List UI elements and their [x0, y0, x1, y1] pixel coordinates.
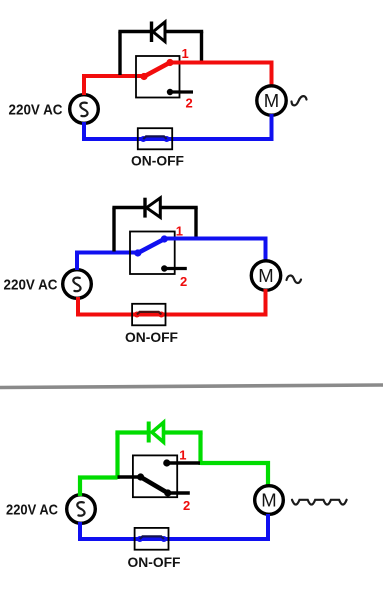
switch S2 throw 1 dot: [161, 235, 168, 242]
wire blue: motor bottom to ON-OFF to source bottom: [84, 114, 272, 139]
switch S1 lever (position 1, red): [144, 63, 170, 77]
switch S1 box: [136, 56, 180, 98]
ON-OFF switch closed blade (circuit 2): [137, 312, 162, 315]
AC source V1 circle: [70, 95, 99, 124]
wire green: source top to diode-loop junction: [80, 478, 118, 497]
svg-text:2: 2: [186, 96, 193, 111]
ON-OFF switch contact dots (circuit 2): [134, 312, 140, 318]
svg-text:M: M: [261, 490, 276, 511]
switch S2 lever (position 1, blue): [138, 239, 165, 253]
svg-text:220V AC: 220V AC: [4, 277, 58, 294]
svg-text:ON-OFF: ON-OFF: [131, 153, 184, 169]
AC source V1 sine symbol: [80, 103, 87, 117]
wire green: diode loop left vertical (circuit 3): [115, 433, 119, 480]
diode D1 cathode bar: [150, 22, 153, 43]
switch S3 throw 1 dot: [163, 459, 170, 466]
wire black: diode loop right vertical: [200, 32, 203, 62]
switch S3 lever (position 2, black): [141, 477, 168, 493]
ON-OFF switch box (circuit 3): [135, 528, 169, 550]
switch S1 throw 1 dot: [166, 59, 173, 66]
wire black: diode loop left vertical: [118, 32, 121, 76]
switch S3 box: [133, 455, 177, 497]
motor M1 circle: [257, 86, 286, 115]
diode D3 triangle (green): [152, 422, 164, 442]
wire red: switch throw 1 to motor top: [170, 63, 272, 88]
wire green: diode loop top-left rail (circuit 3): [115, 430, 148, 434]
wire black: throw 1 to green output (circuit 3): [167, 461, 200, 464]
AC source V2 sine symbol: [73, 278, 80, 292]
switch S2 throw 2 dot: [161, 265, 167, 271]
AC source V2 circle: [63, 270, 92, 299]
AC source V3 sine symbol: [77, 502, 84, 516]
half-wave waveform symbol (circuit 3): [292, 500, 347, 505]
svg-text:1: 1: [176, 223, 183, 238]
diode D3 cathode bar (green): [147, 422, 151, 443]
wire blue: source top to switch common: [77, 253, 138, 271]
wire black: diode loop left vertical (circuit 2): [112, 208, 115, 252]
svg-text:M: M: [264, 90, 279, 111]
ON-OFF switch box (circuit 1): [138, 128, 172, 149]
wire green: diode loop top-right rail (circuit 3): [163, 430, 203, 434]
switch S3 throw 2 stub wire: [168, 491, 190, 494]
wire blue: switch throw 1 to motor top: [164, 239, 265, 263]
switch S2 box: [130, 232, 175, 275]
ON-OFF switch contact dots (circuit 3): [137, 536, 143, 542]
switch S2 common node dot: [134, 249, 141, 256]
wire black: diode loop top-right rail (circuit 2): [160, 206, 197, 209]
wire black: common feed into switch (circuit 3): [118, 475, 141, 478]
separator line between sections: [0, 385, 383, 388]
svg-text:220V AC: 220V AC: [6, 502, 58, 519]
svg-text:2: 2: [180, 274, 187, 289]
svg-text:2: 2: [183, 498, 190, 513]
wire blue: motor bottom to ON-OFF to source bottom (circuit 3): [80, 514, 268, 539]
svg-text:1: 1: [179, 448, 186, 463]
switch S1 throw 2 dot: [167, 89, 173, 95]
motor M2 circle: [251, 261, 280, 290]
ON-OFF switch closed blade (circuit 1): [143, 136, 166, 139]
svg-text:ON-OFF: ON-OFF: [128, 554, 181, 570]
wire black: diode loop top-right rail: [165, 30, 203, 33]
motor M3 circle: [255, 486, 284, 515]
switch S1 common node dot: [140, 73, 147, 80]
wire black: diode loop top-left rail: [118, 30, 151, 33]
wire red: motor bottom to ON-OFF to source bottom: [78, 289, 266, 315]
diode D2 triangle: [147, 198, 161, 218]
switch S3 common node dot: [137, 473, 144, 480]
switch S1 throw 2 stub wire: [170, 90, 193, 93]
wire black: diode loop right vertical (circuit 2): [194, 208, 197, 238]
svg-text:ON-OFF: ON-OFF: [125, 329, 178, 345]
wire black: diode loop top-left rail (circuit 2): [112, 206, 145, 209]
wire red: source top to switch common: [84, 76, 144, 95]
svg-text:220V AC: 220V AC: [9, 102, 63, 119]
wire green: diode loop right vertical (circuit 3): [198, 433, 202, 466]
ON-OFF switch closed blade (circuit 3): [140, 536, 164, 539]
AC source V3 circle: [67, 495, 96, 524]
switch S2 throw 2 stub wire: [164, 267, 187, 270]
diode D1 triangle: [153, 22, 165, 42]
diode D2 cathode bar: [143, 198, 146, 218]
svg-text:1: 1: [182, 46, 189, 61]
ON-OFF switch box (circuit 2): [132, 304, 165, 326]
full sine waveform symbol (circuit 1): [292, 96, 307, 105]
svg-text:M: M: [258, 265, 273, 286]
tilde waveform symbol (circuit 2): [287, 276, 302, 283]
ON-OFF switch contact dots (circuit 1): [140, 136, 146, 142]
wire green: diode output to motor top: [201, 463, 269, 487]
switch S3 throw 2 dot: [164, 489, 171, 496]
